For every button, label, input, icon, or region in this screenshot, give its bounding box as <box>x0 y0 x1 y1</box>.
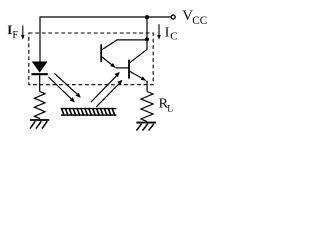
wire top VCC rail <box>40 16 171 18</box>
wire LED cathode to resistor <box>39 75 41 91</box>
transistor Q2 base bar <box>128 60 130 79</box>
transistor Q1 emitter with arrow <box>102 57 116 68</box>
ground (left) <box>30 120 49 129</box>
wire resistor to ground <box>39 117 41 120</box>
light ray arrow (emitted) 1 <box>49 77 75 103</box>
wire Q2 emitter down to RL <box>146 81 148 92</box>
LED D1 triangle <box>33 62 47 72</box>
transistor Q1 collector wire <box>102 40 147 50</box>
svg-text:I: I <box>165 24 170 39</box>
resistor RL <box>141 92 153 122</box>
LED D1 cathode bar <box>31 73 47 75</box>
ground (right) <box>136 123 156 131</box>
wire Q1 emitter to Q2 base <box>116 67 129 69</box>
current arrow IF <box>21 26 25 40</box>
transistor Q2 emitter with arrow <box>130 71 147 80</box>
wire RL to ground <box>146 122 148 123</box>
current arrow IC <box>157 24 161 40</box>
transistor Q2 collector wire <box>130 39 147 62</box>
light ray arrow (reflected) 1 <box>91 72 120 102</box>
svg-text:L: L <box>167 104 173 114</box>
svg-text:C: C <box>170 31 177 43</box>
optocoupler package dashed box <box>29 33 153 85</box>
node junction on VCC rail <box>145 15 149 19</box>
svg-text:F: F <box>12 30 18 41</box>
svg-text:CC: CC <box>192 15 207 27</box>
terminal VCC (open circle) <box>171 15 175 19</box>
light ray arrow (emitted) 2 <box>55 73 81 97</box>
transistor Q1 base bar <box>100 44 102 62</box>
wire left vertical drop to LED anode <box>39 16 41 62</box>
light ray arrow (reflected) 2 <box>96 80 122 107</box>
wire VCC rail down to collector node <box>146 17 148 39</box>
resistor R1 (left, LED series) <box>34 91 45 118</box>
reflective surface (hatched bar) <box>61 108 116 116</box>
node collector junction <box>145 37 149 41</box>
